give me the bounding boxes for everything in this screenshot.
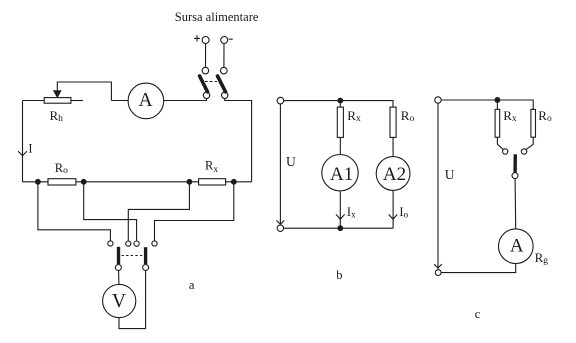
switch K1 blade (left pole) [200,76,208,92]
wire: voltmeter V bottom loop to selector right pivot [119,271,146,329]
svg-text:c: c [475,307,481,321]
switch K1 coupling (dashed) [205,81,217,83]
wire: ammeter A to rheostat wiper riser [111,100,128,102]
terminal - [221,37,228,44]
terminal + [202,37,209,44]
wire: c top bus [441,100,533,109]
wire: c Rx branch upper stub [496,100,498,109]
wire: left rail (vertical) [22,101,24,182]
resistor Ro body (circuit a) [48,179,76,185]
wire: + terminal down to switch K1 [205,44,207,68]
wire: K3 pivot down to ammeter A [514,179,517,229]
wire: node left-of-Ro to selector contact 1 [38,182,111,241]
node: left of Rx [187,179,192,184]
node: right of Ro [81,179,86,184]
selector K2 pivot (right) [143,265,149,271]
selector K2 blade (left pole) [117,247,120,264]
switch K1 lower contact (right) [222,92,228,98]
resistor Ro body (circuit c) [531,109,536,137]
arrow: b source current down left rail [277,220,285,224]
svg-text:A: A [510,236,524,257]
wire: node right-of-Rx to selector contact 4 [155,182,234,241]
selector K2 blade (right pole) [144,247,147,264]
wire: b Rx branch upper stub [339,101,341,108]
wire: K1 left pole to ammeter A [164,99,207,101]
wire: left rail top to rheostat Rh [23,100,45,102]
rheostat Rh body [44,98,71,104]
resistor Ro body (circuit b) [390,107,396,137]
selector K2 contact 4 [152,241,157,246]
resistor Rx body (circuit c) [495,109,500,137]
terminal: b bottom-left [277,225,283,231]
wire: b Ro to ammeter A2 [392,137,394,156]
wire: - terminal down to switch K1 [223,44,225,68]
wire: selector left pivot to voltmeter V [118,271,120,285]
wire: node left-of-Rx to selector contact 2 [128,182,189,241]
arrow: current Ix [336,214,345,219]
resistor Rx body (circuit a) [199,179,226,185]
svg-text:U: U [445,167,455,182]
wire: A2 to b bottom bus [392,190,394,228]
switch K1 blade (right pole) [218,76,226,92]
wire: A1 to b bottom bus [339,191,341,228]
wire: main bottom bus of circuit a [23,181,252,183]
ammeter A2 [376,157,410,191]
switch K3 contact (left) [503,149,508,154]
svg-text:A2: A2 [383,164,406,185]
switch K1 upper contact (right) [221,67,228,74]
svg-text:b: b [336,268,342,282]
terminal: b top-left [277,97,284,104]
ammeter A1 [322,155,358,191]
svg-text:I: I [28,141,32,155]
resistor Rx body (circuit b) [337,107,343,137]
node: b bottom (Rx branch) [338,226,343,231]
node: left of Ro [36,179,41,184]
ammeter A (circuit c) [499,229,534,264]
wire: b top bus [284,101,393,108]
arrow: c source current down left rail [434,264,442,268]
ammeter A [128,83,164,119]
svg-text:A: A [139,90,153,111]
switch K3 pivot [512,173,518,179]
node: c top (Rx branch) [495,98,500,103]
node: b top (Rx branch) [338,98,343,103]
wire: b left rail [279,104,281,225]
wire: node right-of-Ro to selector contact 3 [84,182,137,241]
rheostat wiper arrow [53,90,62,98]
svg-text:U: U [286,154,296,169]
node: right of Rx [231,179,236,184]
selector K2 pivot (left) [115,265,121,271]
label - (negative terminal) [229,38,233,40]
svg-text:A1: A1 [330,164,353,185]
switch K1 upper contact (left) [202,67,209,74]
wire: wiper riser [57,82,111,101]
wire: c Ro lower lead to contact [526,137,533,149]
arrow: current Io [389,214,398,219]
wire: c Rx lower lead to contact [497,137,503,149]
selector K2 contact 1 [108,241,113,246]
svg-text:V: V [112,291,126,312]
wire: K1 right pole to right side rail [225,99,252,182]
selector K2 contact 2 [126,241,131,246]
wire: b Rx to ammeter A1 [339,137,341,154]
switch K3 contact (right) [521,149,526,154]
switch K1 lower contact (left) [203,92,209,98]
wire: b bottom bus [284,227,393,229]
arrow: current I on left rail [18,151,27,156]
label + (positive terminal) [194,35,200,41]
voltmeter V [103,284,136,317]
wire: c bottom bus to ammeter [441,264,516,273]
wire: c left rail [437,103,439,269]
svg-text:a: a [189,278,195,292]
switch K3 blade [513,154,517,172]
terminal: c bottom-left [435,270,441,276]
wire: rheostat right stub [71,100,83,102]
selector K2 contact 3 [134,241,139,246]
selector K2 coupling (dashed) [122,255,144,257]
svg-text:Sursa alimentare: Sursa alimentare [175,10,259,24]
terminal: c top-left [435,97,441,103]
